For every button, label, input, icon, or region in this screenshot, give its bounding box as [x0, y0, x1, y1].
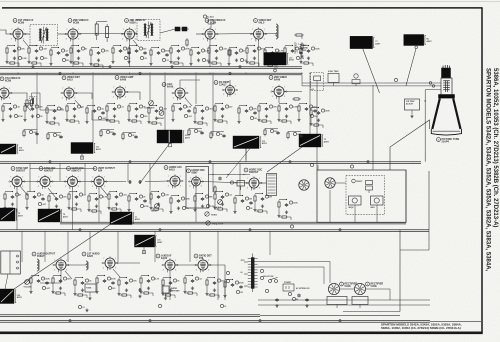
capacitor C209 — [134, 135, 137, 139]
wire — [66, 113, 68, 118]
height control — [151, 204, 159, 213]
svg-text:2: 2 — [247, 187, 248, 189]
wire — [63, 293, 66, 296]
resistor R89 — [284, 46, 286, 55]
capacitor C206 — [112, 132, 115, 136]
value label C230 — [37, 193, 43, 196]
value label C90 — [310, 163, 313, 166]
node — [56, 193, 57, 194]
value label C315 — [63, 277, 71, 280]
value label C326 — [107, 277, 116, 280]
stage label V11 — [269, 76, 287, 82]
tube V5 — [250, 27, 266, 41]
ground GND26 — [69, 60, 72, 63]
ground GND332 — [125, 288, 128, 291]
wire — [79, 209, 82, 212]
node — [318, 107, 319, 108]
wire pointer — [140, 143, 170, 183]
value label C285 — [225, 193, 231, 196]
node — [17, 73, 18, 74]
resistor R240 — [68, 192, 70, 201]
resistor R198 — [23, 129, 25, 137]
value label R93 — [296, 56, 304, 59]
capacitor C157 — [201, 109, 204, 113]
resistor R245 — [70, 208, 78, 210]
ground GND141 — [127, 118, 130, 121]
wire — [288, 131, 301, 133]
svg-text:1: 1 — [208, 260, 209, 262]
svg-text:5: 5 — [208, 269, 209, 271]
ground GND248 — [95, 204, 98, 207]
wire — [399, 230, 401, 312]
wire — [354, 205, 356, 222]
resistor R34 — [112, 46, 114, 55]
filter choke L60 — [327, 297, 347, 309]
svg-text:ASSY: ASSY — [375, 42, 381, 45]
svg-text:1: 1 — [235, 86, 236, 88]
node — [34, 191, 35, 192]
value label C116 — [57, 107, 63, 110]
resistor R348 — [184, 276, 186, 285]
wire — [400, 249, 429, 251]
svg-text:1: 1 — [284, 87, 285, 89]
svg-text:.001: .001 — [209, 108, 213, 110]
capacitor C271 — [177, 199, 180, 203]
capacitor C259 — [135, 197, 138, 201]
svg-text:1: 1 — [115, 258, 116, 260]
svg-text:1: 1 — [185, 88, 186, 90]
wire — [372, 85, 374, 170]
wire — [30, 285, 32, 290]
svg-text:47: 47 — [19, 193, 21, 196]
wire — [81, 63, 84, 66]
wire — [229, 47, 237, 49]
wire — [101, 65, 104, 68]
wire — [0, 30, 13, 34]
wire — [97, 21, 107, 23]
ground GND128 — [85, 120, 88, 123]
wire — [117, 231, 119, 262]
value label C103 — [226, 279, 229, 282]
ground GND32 — [89, 62, 92, 65]
resistor R124 — [68, 120, 76, 122]
capacitor C200 — [35, 132, 38, 136]
wire — [390, 120, 430, 170]
wire pointer — [406, 49, 416, 86]
svg-text:5U4G: 5U4G — [371, 285, 377, 288]
wire — [299, 103, 307, 105]
ground GND166 — [213, 118, 216, 121]
wire — [343, 311, 400, 313]
capacitor C181 — [285, 107, 288, 111]
svg-text:HEIGHT: HEIGHT — [151, 211, 159, 213]
svg-text:1: 1 — [22, 177, 23, 179]
wire — [125, 92, 140, 100]
bus terminal — [109, 66, 111, 68]
node — [158, 191, 159, 192]
svg-text:10: 10 — [224, 306, 226, 308]
wire — [301, 35, 303, 39]
node — [286, 199, 287, 200]
resistor R252 — [108, 192, 110, 201]
node — [96, 193, 97, 194]
wire — [189, 128, 202, 130]
ground GND274 — [169, 210, 172, 213]
node — [214, 277, 215, 278]
node — [178, 195, 179, 196]
wire — [279, 199, 287, 201]
ground GND49 — [149, 62, 152, 65]
svg-text:6AL5: 6AL5 — [67, 79, 74, 82]
wire — [207, 277, 215, 279]
stage label V4 — [205, 19, 226, 25]
capacitor C295 — [261, 197, 264, 201]
value label R129 — [98, 116, 105, 119]
node — [425, 100, 426, 101]
ground GND133 — [113, 114, 116, 117]
wire — [27, 191, 35, 193]
svg-text:.01: .01 — [82, 307, 85, 309]
svg-text:ASSY: ASSY — [157, 241, 163, 244]
wire — [48, 203, 50, 208]
value label C79 — [257, 47, 266, 50]
svg-text:7: 7 — [123, 29, 124, 31]
svg-text:5U4G: 5U4G — [345, 285, 351, 288]
wire — [163, 277, 171, 279]
resistor R246 — [88, 194, 90, 203]
stage label V14 — [67, 167, 84, 173]
resistor R161 — [196, 122, 204, 124]
wire — [269, 121, 272, 124]
wire — [68, 201, 70, 206]
wire — [75, 100, 82, 108]
wire — [191, 47, 199, 49]
resistor R57 — [172, 62, 180, 64]
wire — [300, 55, 302, 60]
svg-text:FREQ CONT: FREQ CONT — [212, 224, 224, 226]
node — [232, 279, 233, 280]
stage label V3 — [125, 19, 146, 25]
value label R190 — [310, 114, 318, 117]
ground GND117 — [45, 120, 48, 123]
wire — [67, 103, 75, 105]
wire — [90, 57, 92, 62]
capacitor C120 — [73, 107, 76, 111]
node — [92, 73, 93, 74]
horiz output tube box — [349, 196, 362, 209]
wire — [31, 275, 39, 277]
value label R154 — [184, 114, 191, 117]
wire — [196, 33, 205, 35]
wire — [129, 103, 137, 105]
ground GND62 — [189, 62, 192, 65]
ground GND250 — [87, 208, 90, 211]
value label C188 — [309, 105, 316, 108]
capacitor C155 — [187, 109, 190, 113]
wire — [89, 193, 97, 195]
wire — [160, 29, 189, 33]
tube V6 — [0, 86, 12, 100]
svg-text:7: 7 — [168, 176, 169, 178]
coil L41 — [86, 261, 88, 270]
svg-text:220: 220 — [143, 48, 146, 50]
resistor R118 — [48, 122, 56, 124]
wire — [84, 163, 86, 194]
capacitor C349 — [191, 279, 194, 283]
transformer T3 — [267, 174, 277, 196]
resistor R125 — [86, 106, 88, 115]
resistor R70 — [228, 48, 230, 57]
wire — [265, 47, 273, 49]
capacitor C277 — [201, 197, 204, 201]
ground GND224 — [11, 202, 14, 205]
wire — [128, 203, 130, 208]
value label C42 — [139, 47, 146, 50]
wire — [88, 203, 90, 208]
node — [72, 73, 73, 74]
svg-text:5: 5 — [201, 185, 202, 187]
wire — [140, 285, 142, 290]
value label R44 — [140, 56, 146, 59]
capacitor C229 — [33, 195, 36, 199]
resistor R27 — [72, 62, 80, 64]
value label C351 — [195, 277, 201, 280]
wire — [180, 80, 200, 86]
bus terminal — [229, 72, 231, 74]
node — [202, 193, 203, 194]
bus terminal — [69, 320, 71, 322]
node — [222, 191, 223, 192]
svg-text:ASSY: ASSY — [289, 59, 295, 62]
value label R88 — [276, 58, 283, 61]
capacitor C241 — [75, 195, 78, 199]
wire — [139, 121, 142, 124]
ground GND182 — [285, 114, 288, 117]
svg-text:ON-OFF SW: ON-OFF SW — [263, 276, 274, 278]
value label R106 — [14, 114, 23, 117]
wire — [173, 295, 176, 298]
ground GND334 — [117, 292, 120, 295]
node — [266, 103, 267, 104]
resistor R306 — [30, 276, 32, 285]
wire — [129, 193, 137, 195]
node — [180, 103, 181, 104]
resistor R81 — [248, 62, 256, 64]
horiz output transformer (photo) — [110, 212, 141, 225]
wire — [154, 231, 156, 262]
ground GND286 — [213, 206, 216, 209]
svg-text:40: 40 — [296, 298, 298, 301]
wire — [311, 63, 314, 66]
terminal — [415, 46, 418, 49]
resistor R101 — [2, 104, 4, 113]
wire — [258, 40, 260, 67]
capacitor C145 — [155, 109, 158, 113]
wire — [245, 149, 247, 162]
resistor R58 — [190, 48, 192, 57]
wire — [78, 181, 95, 183]
node — [198, 47, 199, 48]
value label C267 — [161, 193, 168, 196]
svg-text:7: 7 — [11, 29, 12, 31]
stage label V13 — [39, 167, 56, 173]
ground GND24 — [77, 56, 80, 59]
ground GND111 — [23, 118, 26, 121]
IF transformer Z2 — [137, 20, 160, 41]
node — [156, 105, 157, 106]
wire pointer — [14, 225, 110, 290]
picture tube V21 neck cap — [442, 65, 451, 78]
ground GND314 — [59, 286, 62, 289]
stage label V17 — [187, 169, 205, 175]
node — [301, 73, 302, 74]
svg-text:2.2M: 2.2M — [22, 58, 27, 60]
resistor R52 — [170, 46, 172, 55]
node — [209, 73, 210, 74]
svg-text:330: 330 — [229, 106, 232, 108]
wire — [7, 45, 15, 47]
resistor R186 — [298, 104, 300, 113]
wire — [24, 103, 31, 111]
ground GND78 — [253, 56, 256, 59]
value label C333 — [129, 279, 137, 282]
wire — [78, 33, 125, 35]
wire — [302, 85, 441, 87]
wire — [301, 45, 309, 47]
wire — [301, 75, 303, 86]
svg-text:1B3GT: 1B3GT — [356, 181, 363, 183]
trap coil L11 — [328, 70, 339, 86]
value label C104 — [13, 105, 19, 108]
value label C61 — [394, 78, 397, 81]
svg-text:47: 47 — [243, 49, 245, 52]
value label C110 — [35, 105, 43, 108]
ground GND30 — [97, 58, 100, 61]
wire — [164, 75, 166, 130]
stage label V12 — [11, 167, 28, 173]
wire pointer — [81, 154, 83, 159]
svg-text:ASSY: ASSY — [324, 140, 330, 143]
node — [148, 275, 149, 276]
wire — [405, 170, 407, 222]
wire — [44, 231, 46, 262]
ground GND226 — [3, 206, 6, 209]
horiz hold control — [205, 212, 218, 217]
wire — [129, 295, 132, 298]
wire pointer — [363, 49, 380, 93]
value label R21 — [203, 15, 213, 18]
svg-text:100K: 100K — [293, 202, 298, 204]
svg-text:5386A, 10352, 10353 (Ch. 27D21: 5386A, 10352, 10353 (Ch. 27D213) 5382B (… — [381, 326, 461, 330]
wire bus — [0, 67, 302, 69]
bus terminal — [149, 320, 151, 322]
node — [136, 193, 137, 194]
ground GND278 — [201, 204, 204, 207]
wire — [258, 113, 260, 118]
tube socket V18 — [299, 180, 309, 190]
ground GND121 — [73, 114, 76, 117]
value label C297 — [265, 195, 272, 198]
svg-text:2: 2 — [189, 185, 190, 187]
wire — [284, 91, 302, 93]
capacitor C71 — [235, 51, 238, 55]
wire — [206, 287, 208, 292]
wire — [123, 132, 136, 134]
svg-text:6BQ6: 6BQ6 — [349, 207, 354, 209]
capacitor C365 — [239, 285, 242, 289]
wire — [135, 32, 138, 34]
svg-text:7: 7 — [163, 260, 164, 262]
wire — [162, 287, 164, 292]
wire — [217, 262, 219, 300]
capacitor C47 — [157, 51, 160, 55]
wire — [32, 93, 65, 110]
wire — [229, 80, 231, 86]
value label C104 — [290, 225, 293, 228]
capacitor C233 — [41, 197, 44, 201]
value label C25 — [81, 47, 87, 50]
wire — [214, 201, 216, 206]
value label C147 — [159, 107, 166, 110]
value label R143 — [140, 114, 147, 117]
wire — [215, 33, 254, 36]
wire — [428, 230, 430, 250]
value label C61 — [201, 49, 209, 52]
value label C31 — [101, 49, 109, 52]
node — [246, 105, 247, 106]
wire — [129, 45, 137, 47]
ground GND316 — [51, 290, 54, 293]
wire — [50, 181, 68, 183]
resistor R88 — [214, 185, 216, 194]
ground GND176 — [265, 114, 268, 117]
wire — [278, 113, 280, 118]
resistor R197 — [312, 124, 320, 126]
tube V11 — [271, 85, 287, 99]
svg-text:5: 5 — [115, 267, 116, 269]
ground GND19 — [49, 62, 52, 65]
svg-text:1: 1 — [78, 177, 79, 179]
wire — [5, 191, 13, 193]
value label C89 — [230, 181, 237, 184]
svg-text:4.7K: 4.7K — [155, 277, 160, 280]
ground GND340 — [139, 290, 142, 293]
wire — [22, 181, 40, 183]
stage label V5 — [254, 19, 272, 25]
wire — [265, 128, 278, 130]
value label C290 — [245, 197, 252, 200]
capacitor C313 — [59, 279, 62, 283]
bus terminal — [259, 320, 261, 322]
svg-text:5: 5 — [125, 96, 126, 98]
capacitor C331 — [125, 281, 128, 285]
svg-text:5: 5 — [284, 96, 285, 98]
coil L1 — [276, 24, 278, 39]
terminal — [274, 69, 277, 72]
ground GND68 — [207, 60, 210, 63]
ground GND13 — [27, 60, 30, 63]
value label C5 — [17, 47, 25, 50]
wire — [340, 288, 354, 290]
wire — [28, 55, 30, 60]
wire — [211, 131, 224, 133]
tube V22 — [53, 258, 69, 272]
wire — [257, 63, 260, 66]
svg-text:1: 1 — [9, 88, 10, 90]
capacitor C53 — [177, 49, 180, 53]
wire — [258, 304, 430, 306]
svg-text:5: 5 — [235, 94, 236, 96]
